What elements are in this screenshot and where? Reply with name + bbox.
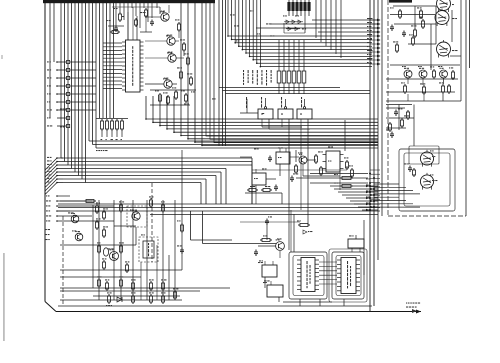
border bottom arrowhead [416,310,421,314]
bus wires staircase aux [206,0,378,136]
resistor R23 [300,224,308,227]
resistor R98a [342,177,351,180]
resistor row RC [101,121,104,129]
transistor Q10 [71,215,79,223]
section dash vertical mid [151,183,153,262]
resistor R38 [389,124,392,130]
transistor Q2 [167,37,175,45]
IC U13 small top [348,239,364,248]
DIP U12 outer loop [332,252,364,299]
wire top center run A [219,87,340,89]
capacitor C11 [390,26,394,28]
right bus border line B [373,0,375,306]
connector CN1 lower parts [67,116,70,119]
DIP U11 body [301,258,315,292]
resistor R12 [185,95,188,101]
wires below FF boxes [262,126,302,128]
wire [145,18,147,32]
resistor R7 [180,72,183,78]
left bus horizontal runs [89,140,378,142]
wire feed Q12 [203,243,277,245]
resistor R21 [86,200,94,203]
capacitor C1 [150,21,154,23]
wire [96,118,128,120]
capacitor C14 [408,167,412,169]
bus wire mid A [58,203,380,205]
resistor row RB white [278,40,280,71]
electrolytic C7 [103,248,108,256]
resistor R29 [412,38,415,44]
wire big loop bottom [191,239,233,241]
diode D1 [117,297,122,302]
wires IC U1 left fan [103,42,122,44]
resistor R34 [423,87,426,93]
resistor R9 [159,95,162,101]
transistor Q14 [419,70,427,78]
resistor R30 [396,45,399,51]
label VR block [45,229,47,230]
border bottom [56,311,421,313]
transistor Q15 [440,70,448,78]
scan speck [1,55,3,59]
tube V4 [420,152,433,165]
wire loop tubes B [404,153,450,206]
resistor R2 [145,10,148,16]
top edge cut bar [43,0,215,3]
stub labels between sections lower [370,169,380,171]
resistor R40 [401,120,404,126]
transistor Q7 [299,156,307,164]
capacitor C9 [265,220,269,222]
transistor Q1 [161,13,169,21]
wires IC U1 top [127,12,129,40]
resistor R2b [135,20,138,25]
IC U3 [278,109,293,119]
transistor Q9 [110,252,119,261]
IC U6 [252,173,266,185]
label right transistors [402,66,404,67]
connector CN2 fan wires [45,158,57,170]
resistor R5 [183,44,186,50]
note arrow [412,309,417,313]
wires into tube box [374,183,399,185]
wire [181,150,183,270]
resistor R37 [407,112,410,118]
resistor R36 [448,86,451,92]
tube V2 [435,11,449,25]
label tube V4 [432,156,433,157]
label left of boxes [246,97,247,100]
resistor R19 [346,162,349,168]
inner bottom rule [58,305,372,307]
wires dip risers [290,210,292,252]
label tube V5 [432,180,435,181]
IC U5 [276,152,290,164]
wire [283,23,285,33]
stub labels between sections [370,19,380,21]
bus wire mid D [150,214,378,216]
wires right top [393,5,436,7]
wires mid-right cluster [240,156,252,158]
wire loop tubes A [399,149,455,211]
label tube V1 [452,4,454,5]
wire top center run C [226,93,371,95]
wire [386,107,405,109]
resistor R17 [315,156,318,162]
label column rotated [243,70,244,72]
label antenna note [96,150,98,151]
IC U10 small [267,285,283,297]
resistor R32 [452,72,455,78]
capacitor C5 [290,177,294,179]
wires between DIPs [319,261,337,263]
wires transistor cluster [145,16,161,18]
resistor R26 [420,11,423,17]
section boundary vertical left [62,216,64,306]
resistor R27 [422,21,425,27]
top edge bar right section [389,0,412,3]
resistor R31 [433,71,436,77]
wires bottom-left horizontals [60,200,96,202]
capacitor C6 [268,157,272,159]
DIP U12 outer loop 2 [329,249,367,302]
transistor Q4 [164,80,172,88]
capacitor C13 [394,111,398,113]
wires dip area top [240,221,300,223]
wires bottom-left verticals [98,200,100,300]
right bus border line D [381,0,383,216]
tube V1 [437,0,451,11]
far right vertical [469,0,471,68]
right bus border line C [377,0,379,260]
resistor bank top dark [288,0,290,16]
tube V3 [437,42,451,56]
wires DIP loops to bottom rule [299,299,301,306]
capacitor C2 [114,27,118,29]
wire [150,89,196,91]
wire FF feed left [240,112,258,114]
resistors bottom-left grid [96,206,99,212]
resistor R1 [119,14,122,20]
mid horizontal runs to connector [61,157,63,159]
resistor R22 [181,225,184,231]
junction dots right bus [369,185,371,187]
border bevel corner [45,302,56,312]
resistor R25 [399,11,402,17]
wire inner left vertical short [53,3,55,62]
resistor R28 [414,30,417,36]
DIP U11 outer loop [289,252,327,299]
resistor R39 [413,170,416,175]
wire [170,213,196,215]
diode cluster below bank [286,20,289,24]
wire [135,227,137,245]
capacitor C15 [390,133,394,135]
cluster above mid bus [249,189,256,192]
resistor R16 [295,166,298,172]
IC U2 [258,109,273,119]
IC U4 [297,109,312,119]
left bus wires [60,0,62,158]
scan speck [3,253,5,341]
label bottom left [106,305,107,306]
wire [344,120,346,151]
IC U8 dashed [139,237,158,262]
resistor R18 [320,168,323,174]
resistor R10 [167,97,170,103]
wire big loop left [190,211,192,240]
tube V5 [420,175,433,188]
component value labels [96,202,98,203]
resistor R35 [442,86,445,92]
wires right section mid [386,117,414,119]
wire [112,6,160,8]
resistor R20 [351,170,354,176]
transistor Q11 [75,233,83,241]
capacitor C8 [180,249,184,251]
bus wires top center staircase [228,0,372,36]
DIP U12 inner loop [336,256,361,296]
connector CN1 pins [67,60,70,63]
wires dropping from top right of bar [315,0,317,38]
connector CN2 lower pins [57,195,70,197]
transistor Q8 [132,212,140,220]
wires right mid [390,64,460,66]
note text line1 [406,303,407,304]
resistor R3 [112,31,118,34]
label half watt [303,230,307,234]
wires bottom-left verticals aux [140,262,142,300]
right section right border [465,0,467,216]
resistor R11 [175,92,178,98]
wires into right bus upper [310,173,368,175]
bus wires top center long [218,0,220,146]
bus wires staircase center [146,96,378,119]
wires upper runs to right terminals [312,19,377,21]
right bus border line A [369,0,371,312]
wires from top bar to IC area [115,3,117,26]
wire [108,25,124,27]
bus wire mid B [58,207,380,209]
note text line2 [406,307,408,308]
resistor R33 [404,86,407,92]
DIP U12 pins [337,259,341,261]
capacitor C10 [254,251,258,253]
right section boundary dash [387,0,389,216]
dash box around Q8 [127,206,147,227]
wire inner left vertical [49,3,51,118]
DIP U11 pins [297,259,301,261]
resistor R6 [187,58,190,64]
resistor R4 [178,24,181,30]
border left [44,0,46,302]
resistor R98b [342,185,351,188]
transistor Q13 [404,70,412,78]
label IC top parts [113,8,115,9]
wire vertical mid box [202,211,204,244]
wire [386,104,412,106]
IC U9 small [262,265,277,277]
DIP U12 body [341,258,356,294]
bus wire mid C [58,210,380,212]
IC U7 [326,151,340,172]
resistor R8 [190,78,193,84]
DIP U11 inner loop [293,256,324,296]
capacitor C12 [402,32,406,34]
right section boundary bottom dash [388,215,466,217]
transistor Q12 [276,242,285,251]
wire [150,104,190,106]
wire loop tubes C [409,146,439,164]
wire top center run B [223,90,371,92]
IC U1 [126,40,141,92]
resistor R24 [262,239,270,242]
transistor Q3 [168,54,176,62]
wire [114,225,136,227]
